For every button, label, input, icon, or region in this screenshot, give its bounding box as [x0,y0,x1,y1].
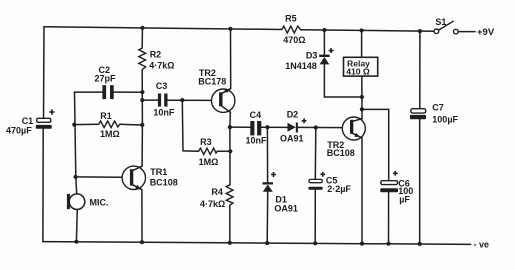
junction C6 ground [386,242,390,246]
junction D1 ground [265,241,269,245]
junction R2 top rail [140,26,144,30]
plus D1 [271,172,276,177]
wire TR1 collector [132,166,142,171]
svg-text:C7: C7 [432,103,444,113]
wire TR3 emitter to ground [351,133,362,244]
junction C5 ground [313,241,317,245]
wire main vertical above R2 [141,28,143,48]
wire C4 to D2 [261,126,287,128]
transistor TR3 BC108 [342,117,365,140]
resistor R5 [282,26,301,33]
wire C5 branch upper [314,128,317,180]
junction C2 right [140,90,144,94]
wire C2 right [114,91,143,93]
svg-text:R2: R2 [150,49,162,59]
capacitor C1 [36,118,52,128]
junction D3 top rail [322,28,326,32]
wire R4 vertical upper [229,127,231,185]
svg-text:1MΩ: 1MΩ [100,129,120,139]
svg-text:C3: C3 [156,81,168,91]
svg-text:470µF: 470µF [6,126,32,136]
plus C1 [49,109,54,114]
wire to C2 left [75,91,103,93]
junction mic ground [74,240,78,244]
plus D3 [329,48,334,53]
capacitor C3 [158,94,168,107]
junction relay top rail [360,28,364,32]
svg-text:4·7kΩ: 4·7kΩ [149,60,174,70]
switch S1 contacts [434,29,458,34]
plus C6 [393,171,398,176]
junction C5 top [314,125,318,129]
junction R3 right [228,149,232,153]
svg-text:D3: D3 [306,50,318,60]
svg-text:C4: C4 [250,110,262,120]
svg-text:10nF: 10nF [153,108,175,118]
wire C3 right to TR2 base [168,99,212,101]
plus C5 [320,172,325,177]
wire TR1 emitter to ground [132,184,142,242]
svg-text:MIC.: MIC. [90,198,109,208]
junction R4 ground [228,241,232,245]
junction TR1 base [74,175,78,179]
junction R1 right [140,123,144,127]
svg-text:BC178: BC178 [198,76,226,86]
resistor R2 [139,48,146,70]
wire mic branch upper [75,92,77,194]
resistor R4 [226,185,233,205]
resistor R1 [99,121,120,128]
wire R4 lower [229,205,231,243]
wire main vertical below R2 [141,70,143,167]
wire R1 right [120,123,143,126]
wire D2 to TR3 base [298,126,343,128]
wire C6 lower [388,192,390,243]
wire D3 branch lower [323,65,325,98]
wire R3 left [183,150,199,152]
junction D3 relay bottom [360,95,364,99]
wire mic branch lower [75,209,78,241]
wire TR2 emitter from rail [221,29,231,94]
wire relay row [324,96,362,98]
diode D3 [319,55,329,65]
wire R3 right [217,150,230,152]
svg-text:2·2µF: 2·2µF [327,184,351,194]
wire bottom rail [43,242,471,245]
wire D3 branch upper [323,30,325,55]
wire C6 takeoff [362,109,389,180]
svg-text:OA91: OA91 [274,204,298,214]
wire R1 left [74,123,98,125]
svg-text:410 Ω: 410 Ω [346,66,370,76]
wire left edge below C1 [42,129,44,242]
wire TR3 collector [351,76,362,122]
svg-text:D2: D2 [287,109,299,119]
wire TR2 collector [221,106,231,128]
junction C3 left [140,98,144,102]
junction TR2 collector C4 [228,125,232,129]
svg-text:BC108: BC108 [327,148,355,158]
svg-text:TR1: TR1 [150,167,167,177]
svg-text:S1: S1 [435,17,446,27]
wire D1 branch lower [266,192,269,243]
svg-text:BC108: BC108 [150,177,178,187]
wire top rail right [301,30,435,32]
svg-text:27pF: 27pF [95,74,117,84]
junction TR2 emitter top rail [228,27,232,31]
wire D1 branch upper [266,127,268,182]
wire left edge above C1 [43,27,46,119]
svg-text:100µF: 100µF [432,115,458,125]
svg-text:R4: R4 [211,187,223,197]
capacitor C4 [250,121,261,135]
transistor TR2 BC178 [212,88,235,112]
capacitor C5 [308,179,322,189]
svg-text:OA91: OA91 [280,134,304,144]
capacitor C7 [410,109,426,120]
wire R3 branch vertical [181,100,184,151]
svg-text:10nF: 10nF [246,136,268,146]
transistor TR1 [122,166,145,190]
microphone MIC [67,194,85,210]
relay box [344,57,378,76]
junction R1 left [72,123,76,127]
plus D2 [302,118,307,123]
junction D1 top [265,125,269,129]
switch S1 lever [439,21,454,30]
svg-text:R1: R1 [100,111,112,121]
wire C7 upper [419,31,421,109]
wire C7 lower [419,119,421,243]
svg-text:470Ω: 470Ω [283,35,305,45]
junction C7 ground [418,242,422,246]
resistor R3 [199,148,218,154]
svg-text:µF: µF [399,194,410,204]
wire top rail left [44,27,282,30]
svg-text:R5: R5 [285,14,297,24]
svg-text:1N4148: 1N4148 [285,61,317,71]
junction C3 right node [180,98,184,102]
svg-text:- ve: - ve [474,240,490,250]
junction TR3 emitter ground [360,242,364,246]
svg-text:R3: R3 [200,137,212,147]
svg-text:C1: C1 [22,116,34,126]
capacitor C2 [102,85,113,99]
wire to C4 [230,126,250,128]
junction TR1 emitter ground [140,240,144,244]
wire TR1 base [76,176,123,178]
plus marks [49,48,398,177]
diode D2 [288,123,298,133]
svg-text:+9V: +9V [477,27,495,38]
svg-text:4·7kΩ: 4·7kΩ [200,199,225,209]
wire S1 output [458,31,475,33]
diode D1 [263,182,274,192]
junction C7 top rail [418,29,422,33]
wire C5 branch lower [314,190,316,244]
junction C6 takeoff [360,107,364,111]
wire C3 left [142,99,158,101]
svg-text:1MΩ: 1MΩ [199,157,219,167]
capacitor C6 [380,181,398,193]
wire relay top [361,30,363,57]
